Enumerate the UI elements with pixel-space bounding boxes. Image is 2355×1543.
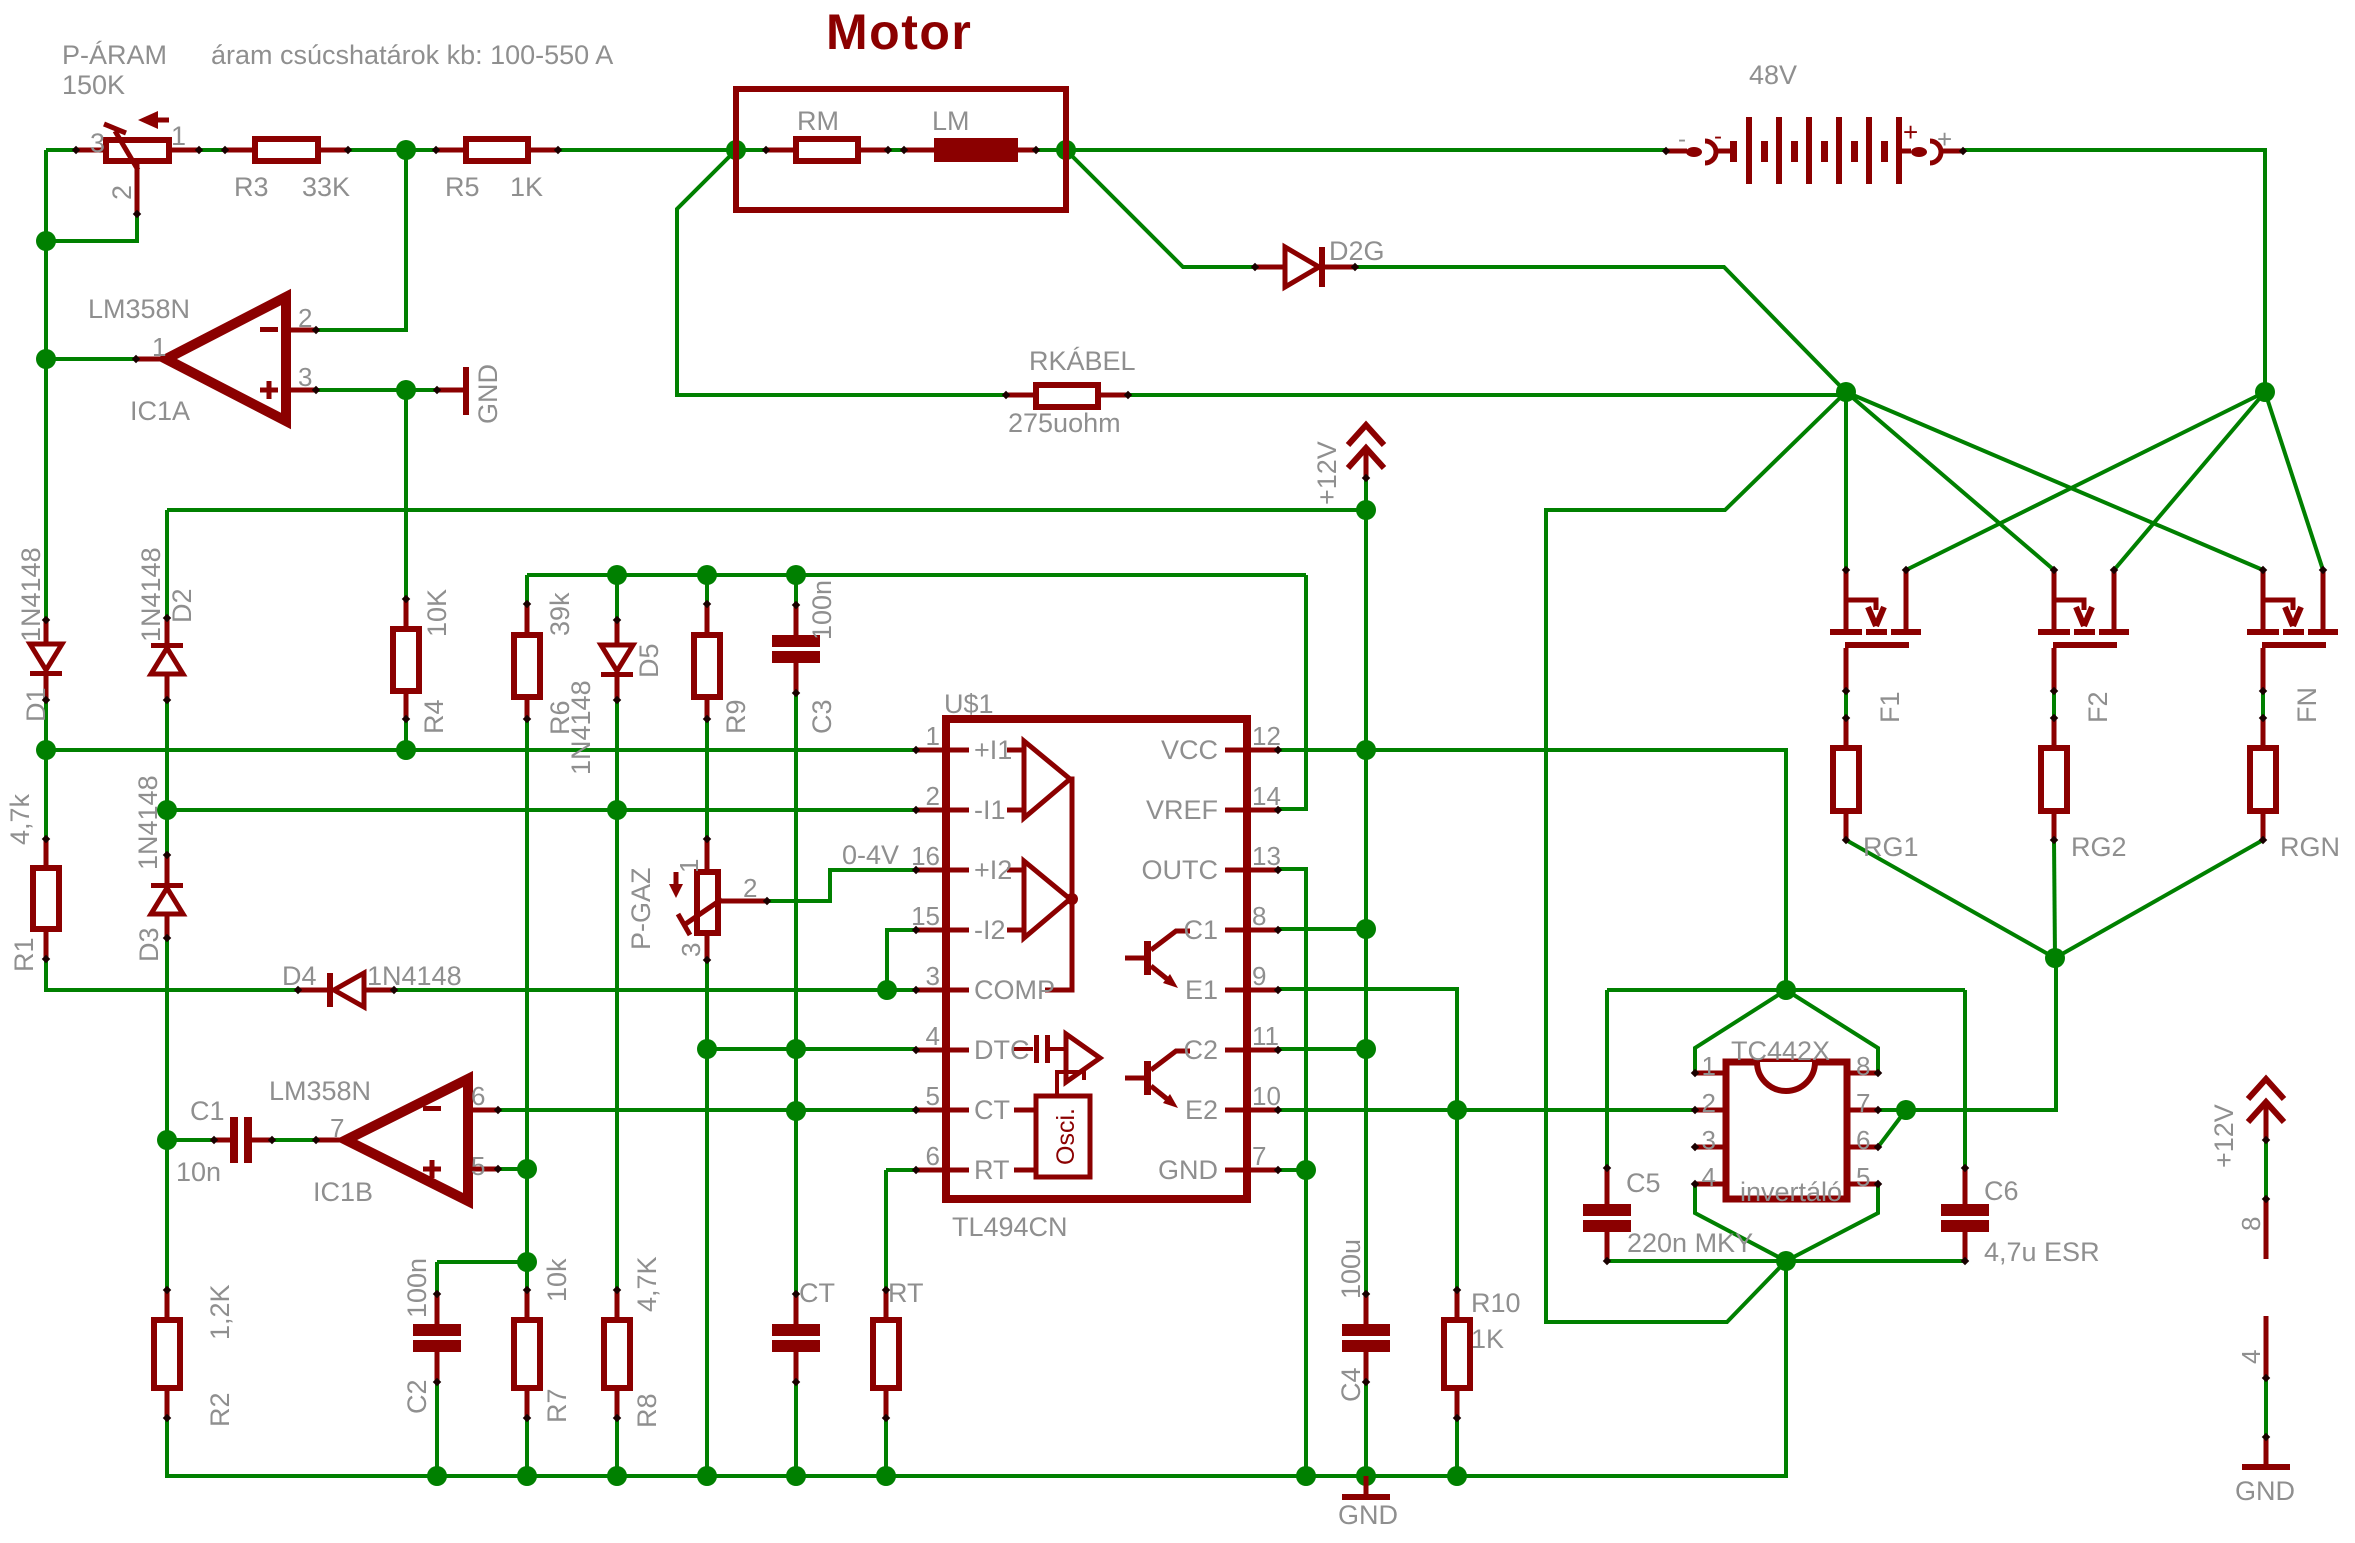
junction (1066,150) (1056, 140, 1076, 160)
wire hub1 to F2 left (1846, 392, 2054, 570)
wire hub2 to F2 right (2114, 392, 2265, 570)
op-amp IC1B LM358N (346, 1079, 468, 1201)
svg-text:13: 13 (1252, 841, 1281, 871)
svg-text:TL494CN: TL494CN (952, 1212, 1068, 1242)
TC442X pin 8 stub (2264, 1199, 2269, 1259)
svg-text:9: 9 (1252, 961, 1266, 991)
svg-text:7: 7 (1856, 1088, 1870, 1118)
svg-text:1: 1 (152, 332, 166, 362)
svg-text:GND: GND (1338, 1500, 1398, 1530)
wire E1 pin9 (1278, 989, 1457, 1110)
junction (167,810) (157, 800, 177, 820)
svg-text:RKÁBEL: RKÁBEL (1029, 346, 1136, 376)
wire IC1B pin5 (497, 1167, 527, 1171)
junction (1366,1049) (1356, 1039, 1376, 1059)
resistor R2 1,2K (154, 1320, 180, 1388)
svg-text:LM358N: LM358N (88, 294, 190, 324)
wire -I1 row (167, 808, 916, 812)
junction (527,1262) (517, 1252, 537, 1272)
junction (736,150) (726, 140, 746, 160)
svg-text:39k: 39k (545, 592, 575, 636)
wire VCC row to TC442X top (1278, 750, 1786, 990)
junction (1457,1476) (1447, 1466, 1467, 1486)
wire battery plus to hub2 (1963, 150, 2265, 392)
svg-text:CT: CT (799, 1278, 835, 1308)
wire hexagon pin4 to bottom node (1695, 1184, 1786, 1261)
op-amp IC1A LM358N (166, 297, 286, 421)
svg-text:1: 1 (171, 121, 186, 151)
svg-text:C3: C3 (807, 699, 837, 734)
resistor R1 4,7k (33, 868, 59, 929)
ground symbol IC1A (437, 388, 464, 393)
svg-text:3: 3 (1702, 1125, 1716, 1155)
svg-text:48V: 48V (1749, 60, 1797, 90)
svg-text:10k: 10k (542, 1258, 572, 1302)
ground symbol bottom center (1364, 1476, 1369, 1494)
capacitor CT (770, 1320, 822, 1356)
wire RGN to gate node (2055, 840, 2263, 958)
wire FN gate to RG (2261, 691, 2265, 718)
svg-text:5: 5 (1856, 1162, 1870, 1192)
junction (527,1169) (517, 1159, 537, 1179)
resistor R4 10K (393, 629, 419, 691)
svg-text:33K: 33K (302, 172, 350, 202)
capacitor C5 220n MKY (1581, 1200, 1633, 1236)
transistor MOSFET F1 (1844, 570, 1849, 629)
svg-text:GND: GND (1158, 1155, 1218, 1185)
wire right GND stem (2264, 1378, 2268, 1437)
svg-text:2: 2 (743, 873, 757, 903)
ground symbol bottom right (2264, 1437, 2269, 1464)
svg-text:RGN: RGN (2280, 832, 2340, 862)
wire C3/CT column (794, 575, 798, 1476)
svg-text:RT: RT (974, 1155, 1010, 1185)
wire RT row (886, 1168, 916, 1172)
wire C2 column (435, 1262, 439, 1476)
svg-text:11: 11 (1252, 1021, 1279, 1051)
inductor LM (934, 138, 1018, 162)
junction (167,1140) (157, 1130, 177, 1150)
TL494 error amp 1 (1024, 741, 1070, 818)
svg-text:4,7K: 4,7K (632, 1256, 662, 1312)
wire +12V arrow stem (1364, 478, 1368, 510)
svg-text:VCC: VCC (1161, 735, 1218, 765)
resistor RG2 (2041, 748, 2067, 811)
svg-text:3: 3 (676, 943, 706, 957)
junction (617,1476) (607, 1466, 627, 1486)
wire +I1 row (46, 748, 916, 752)
svg-text:F1: F1 (1875, 691, 1905, 723)
potentiometer P-ARAM 150K (76, 148, 106, 153)
svg-text:-: - (1714, 123, 1722, 150)
wire RT column (884, 1170, 888, 1476)
svg-text:C1: C1 (190, 1096, 225, 1126)
capacitor C6 4,7u ESR (1939, 1200, 1991, 1236)
resistor RGN (2250, 748, 2276, 811)
svg-text:R9: R9 (721, 699, 751, 734)
wire F1 gate to RG (1844, 691, 1848, 718)
svg-text:LM358N: LM358N (269, 1076, 371, 1106)
junction (46,241) (36, 231, 56, 251)
svg-text:RG1: RG1 (1863, 832, 1919, 862)
svg-text:3: 3 (298, 362, 312, 392)
wire +12V rail (167, 508, 1366, 512)
junction (886,1476) (876, 1466, 896, 1486)
TL494 oscillator box (1036, 1096, 1090, 1177)
wire hexagon pin5 to bottom node (1786, 1184, 1878, 1261)
wire VREF rail (527, 573, 1306, 577)
junction (406,390) (396, 380, 416, 400)
svg-text:RT: RT (888, 1278, 924, 1308)
wire E2 row to TC442X pin2 (1278, 1108, 1695, 1112)
wire DTC row (707, 1047, 916, 1051)
capacitor C3 100n (770, 631, 822, 667)
junction (1366,929) (1356, 919, 1376, 939)
wire hub2 to F1 right (1906, 392, 2265, 570)
svg-text:R2: R2 (205, 1392, 235, 1427)
junction (2265,392) (2255, 382, 2275, 402)
diode D2G (1255, 265, 1285, 270)
svg-text:COMP: COMP (974, 975, 1055, 1005)
junction (1366,1476) (1356, 1466, 1376, 1486)
svg-text:R1: R1 (9, 937, 39, 972)
junction (617,575) (607, 565, 627, 585)
svg-text:TC442X: TC442X (1731, 1036, 1830, 1066)
wire VREF pin14 (1278, 575, 1306, 809)
svg-text:R8: R8 (632, 1393, 662, 1428)
svg-text:3: 3 (90, 128, 105, 158)
svg-text:7: 7 (1252, 1141, 1266, 1171)
wire pot P-ARAM wiper to left rail (46, 170, 137, 241)
svg-text:1,2K: 1,2K (205, 1284, 235, 1340)
svg-text:10n: 10n (176, 1157, 221, 1187)
diode D1 1N4148 (30, 644, 62, 670)
junction (887,990) (877, 980, 897, 1000)
wire R9/P-GAZ column (705, 575, 709, 1476)
junction (437,1476) (427, 1466, 447, 1486)
junction (406,150) (396, 140, 416, 160)
svg-text:7: 7 (330, 1113, 344, 1143)
svg-text:-I1: -I1 (974, 795, 1006, 825)
svg-text:4: 4 (2236, 1350, 2266, 1364)
wire hub2 to FN right (2265, 392, 2323, 570)
svg-text:R3: R3 (234, 172, 269, 202)
diode D3 1N4148 (151, 883, 183, 888)
+12V supply symbol right (2248, 1079, 2284, 1099)
junction (1846,392) (1836, 382, 1856, 402)
wire TC442X pin7 to gate node (1878, 958, 2056, 1110)
svg-text:C1: C1 (1183, 915, 1218, 945)
wire D2/D3/R2 column and bottom GND rail (167, 510, 1786, 1476)
svg-text:CT: CT (974, 1095, 1010, 1125)
resistor R3 33K (255, 139, 318, 161)
wire C2 pin11 (1278, 1047, 1366, 1051)
resistor RT (873, 1320, 899, 1388)
svg-text:D3: D3 (134, 927, 164, 962)
TC442X pins (1695, 1071, 1726, 1076)
wire -I2 jog (887, 930, 916, 990)
wire TL494 GND pin7 (1278, 1168, 1306, 1172)
potentiometer P-GAZ (705, 839, 710, 872)
svg-text:1N4148: 1N4148 (16, 547, 46, 642)
svg-text:C6: C6 (1984, 1176, 2019, 1206)
svg-text:VREF: VREF (1146, 795, 1218, 825)
svg-text:-I2: -I2 (974, 915, 1006, 945)
resistor RG1 (1833, 748, 1859, 811)
resistor R5 1K (466, 139, 528, 161)
wire C1 pin8 (1278, 927, 1366, 931)
svg-text:1K: 1K (1471, 1324, 1504, 1354)
svg-text:1K: 1K (510, 172, 543, 202)
wire hub1 ground loop (1546, 392, 1846, 1322)
svg-text:GND: GND (473, 364, 503, 424)
svg-text:-: - (1678, 126, 1686, 153)
+12V supply symbol center (1348, 425, 1384, 445)
motor box outline (736, 89, 1066, 210)
svg-text:Osci.: Osci. (1052, 1108, 1080, 1165)
wire top rail motor/battery row (46, 148, 1666, 152)
junction (46,750) (36, 740, 56, 760)
svg-text:4: 4 (1702, 1162, 1716, 1192)
svg-text:10K: 10K (422, 589, 452, 637)
junction (1786,990) (1776, 980, 1796, 1000)
wire C2 link (437, 1260, 527, 1264)
svg-text:P-ÁRAM: P-ÁRAM (62, 40, 167, 70)
wire left column and COMP/D4 row (46, 150, 916, 990)
wire IC1A pin3 to GND (316, 388, 466, 392)
TL494 transistor Q2 (1144, 1061, 1151, 1095)
wire RG1 to gate node (1846, 840, 2055, 958)
svg-text:invertáló: invertáló (1740, 1177, 1842, 1207)
junction (2055,958) (2045, 948, 2065, 968)
svg-text:LM: LM (932, 106, 970, 136)
wire R10 column (1455, 1110, 1459, 1476)
wire RKABEL path (677, 150, 1846, 395)
svg-text:0-4V: 0-4V (842, 840, 899, 870)
svg-text:C4: C4 (1336, 1367, 1366, 1402)
svg-text:1N4148: 1N4148 (136, 547, 166, 642)
junction (796,1049) (786, 1039, 806, 1059)
svg-text:R4: R4 (419, 699, 449, 734)
svg-text:R10: R10 (1471, 1288, 1521, 1318)
wire C6 column (1963, 990, 1967, 1261)
TL494 error amp 2 (1024, 861, 1070, 938)
wire VCC/C1/C2/C4 column (1364, 510, 1368, 1476)
junction (707,1476) (697, 1466, 717, 1486)
IC U$1 TL494CN body (946, 719, 1247, 1199)
resistor R7 10k (514, 1320, 540, 1388)
junction (1366,510) (1356, 500, 1376, 520)
svg-text:1: 1 (926, 721, 940, 751)
wire P-GAZ wiper 0-4V to +I2 (767, 870, 916, 901)
svg-text:D2: D2 (167, 588, 197, 623)
svg-text:RM: RM (797, 106, 839, 136)
resistor R8 4,7K (604, 1320, 630, 1388)
svg-text:150K: 150K (62, 70, 125, 100)
capacitor C1 10n (226, 1112, 258, 1168)
TC442X pin 4 stub (2264, 1316, 2269, 1378)
TL494 pins (916, 748, 969, 753)
svg-text:5: 5 (926, 1081, 940, 1111)
svg-text:100n: 100n (807, 580, 837, 640)
svg-text:220n MKY: 220n MKY (1627, 1228, 1753, 1258)
svg-text:1: 1 (1702, 1051, 1716, 1081)
svg-text:+12V: +12V (1312, 441, 1342, 505)
capacitor C4 100u (1340, 1320, 1392, 1356)
wire R6/R7 column (525, 575, 529, 1476)
svg-text:D2G: D2G (1329, 236, 1385, 266)
svg-text:6: 6 (1856, 1125, 1870, 1155)
battery 48V (1666, 149, 1687, 154)
wire hub1 to F1 left (1844, 392, 1848, 570)
svg-text:5: 5 (471, 1151, 485, 1181)
resistor RM (796, 139, 858, 161)
svg-text:áram csúcshatárok kb: 100-550: áram csúcshatárok kb: 100-550 A (211, 40, 613, 70)
wire CT row / IC1B pin6 (497, 1108, 916, 1112)
svg-text:E1: E1 (1185, 975, 1218, 1005)
wire OUTC pin13 down to rail (1278, 869, 1306, 1476)
svg-text:RG2: RG2 (2071, 832, 2127, 862)
wire C1 row (166, 1138, 346, 1142)
svg-text:D5: D5 (634, 643, 664, 678)
resistor R10 1K (1444, 1320, 1470, 1388)
wire TC442X pin6 diagonal (1878, 1110, 1906, 1147)
diode D5 1N4148 (601, 645, 633, 671)
svg-text:4,7k: 4,7k (5, 793, 35, 845)
svg-text:IC1B: IC1B (313, 1177, 373, 1207)
wire hub1 to FN left (1846, 392, 2263, 570)
IC TC442X body (1726, 1062, 1847, 1199)
junction (796,1111) (786, 1101, 806, 1121)
wire C5 column (1605, 990, 1609, 1261)
svg-text:2: 2 (926, 781, 940, 811)
resistor R6 39k (514, 635, 540, 697)
junction (796,575) (786, 565, 806, 585)
svg-text:10: 10 (1252, 1081, 1281, 1111)
svg-text:1N4148: 1N4148 (566, 680, 596, 775)
wire RG2 to gate node (2054, 840, 2055, 958)
wire C5/C6 bottom arm (1607, 1259, 1965, 1263)
junction (707,575) (697, 565, 717, 585)
svg-text:12: 12 (1252, 721, 1281, 751)
junction (527,1476) (517, 1466, 537, 1486)
junction (1786,1261) (1776, 1251, 1796, 1271)
svg-text:275uohm: 275uohm (1008, 408, 1121, 438)
svg-text:GND: GND (2235, 1476, 2295, 1506)
svg-text:C2: C2 (402, 1379, 432, 1414)
junction (707,1049) (697, 1039, 717, 1059)
svg-text:2: 2 (298, 303, 312, 333)
svg-text:IC1A: IC1A (130, 396, 190, 426)
wire IC1A pin2 to R3/R5 node (316, 150, 406, 330)
TL494 comp feedback line (1045, 779, 1072, 990)
svg-text:Motor: Motor (826, 4, 972, 60)
junction (1457,1110) (1447, 1100, 1467, 1120)
svg-text:+12V: +12V (2209, 1104, 2239, 1168)
junction (796,1476) (786, 1466, 806, 1486)
svg-text:+I1: +I1 (974, 735, 1012, 765)
junction (1906,1110) (1896, 1100, 1916, 1120)
svg-text:+: + (1903, 117, 1918, 147)
svg-text:6: 6 (926, 1141, 940, 1171)
TL494 transistor Q1 (1144, 941, 1151, 975)
svg-text:1: 1 (674, 859, 704, 873)
svg-text:C2: C2 (1183, 1035, 1218, 1065)
wire hexagon to pin1 (1695, 990, 1786, 1073)
junction (46,359) (36, 349, 56, 369)
wire D5/R8 column (615, 575, 619, 1476)
svg-text:D1: D1 (21, 687, 51, 722)
svg-text:2: 2 (1702, 1088, 1716, 1118)
wire D2G path (1066, 150, 1846, 392)
svg-text:+: + (1937, 124, 1952, 154)
svg-text:1N4148: 1N4148 (133, 775, 163, 870)
pin tip markers (221, 146, 229, 154)
TL494 DTC cap and buffer (1014, 1047, 1033, 1051)
svg-text:2: 2 (107, 185, 137, 200)
resistor RKABEL 275uohm (1036, 385, 1098, 407)
junction (1366,750) (1356, 740, 1376, 760)
wire hexagon to pin8 (1786, 990, 1878, 1073)
svg-text:FN: FN (2292, 687, 2322, 723)
svg-text:8: 8 (1856, 1051, 1870, 1081)
svg-text:8: 8 (1252, 901, 1266, 931)
svg-text:6: 6 (471, 1081, 485, 1111)
svg-text:100n: 100n (402, 1258, 432, 1318)
junction (406,750) (396, 740, 416, 760)
svg-text:100u: 100u (1336, 1239, 1366, 1299)
svg-text:DTC: DTC (974, 1035, 1030, 1065)
svg-text:+I2: +I2 (974, 855, 1012, 885)
resistor R9 (694, 635, 720, 697)
diode D2 1N4148 (151, 643, 183, 648)
junction (1306,1476) (1296, 1466, 1316, 1486)
svg-text:1N4148: 1N4148 (367, 961, 462, 991)
capacitor C2 100n (411, 1320, 463, 1356)
wire R4 column (404, 390, 408, 750)
svg-text:P-GAZ: P-GAZ (626, 867, 656, 950)
svg-text:OUTC: OUTC (1142, 855, 1219, 885)
svg-text:4,7u ESR: 4,7u ESR (1984, 1237, 2100, 1267)
svg-text:3: 3 (926, 961, 940, 991)
wire IC1A output (46, 357, 166, 361)
svg-text:F2: F2 (2083, 691, 2113, 723)
junction (1306,1170) (1296, 1160, 1316, 1180)
svg-text:D4: D4 (282, 961, 317, 991)
wire right +12V stem (2264, 1140, 2268, 1199)
svg-text:C5: C5 (1626, 1168, 1661, 1198)
wire F2 gate to RG (2052, 691, 2056, 718)
svg-text:14: 14 (1252, 781, 1281, 811)
svg-text:R7: R7 (542, 1388, 572, 1423)
svg-text:E2: E2 (1185, 1095, 1218, 1125)
svg-text:4: 4 (926, 1021, 940, 1051)
transistor MOSFET FN (2261, 570, 2266, 629)
wire C5/C6 top arm (1607, 988, 1965, 992)
transistor MOSFET F2 (2052, 570, 2057, 629)
junction (617,810) (607, 800, 627, 820)
svg-text:8: 8 (2236, 1217, 2266, 1231)
diode D4 1N4148 (298, 988, 327, 993)
svg-text:R5: R5 (445, 172, 480, 202)
svg-text:U$1: U$1 (944, 689, 994, 719)
